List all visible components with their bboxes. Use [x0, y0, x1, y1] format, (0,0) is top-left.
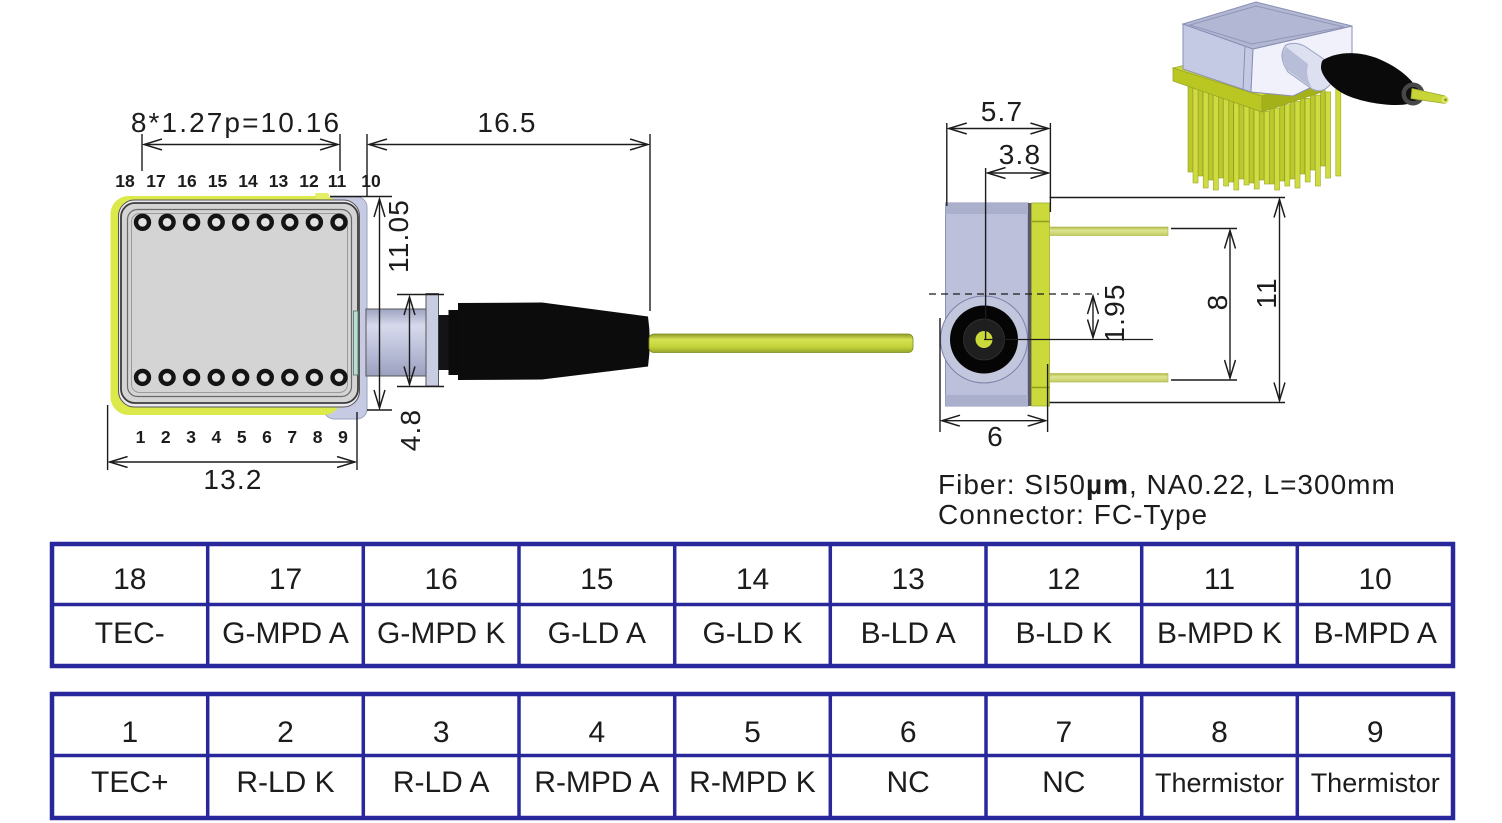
svg-text:5: 5	[744, 716, 761, 749]
svg-text:5: 5	[237, 427, 247, 447]
svg-text:R-LD A: R-LD A	[393, 766, 490, 799]
svg-text:17: 17	[146, 171, 165, 191]
svg-text:2: 2	[277, 716, 294, 749]
dim 5.7/3.8 extension right	[1049, 123, 1051, 212]
fiber boot circle	[950, 306, 1018, 374]
table 2 grid	[52, 694, 1453, 818]
svg-text:10: 10	[1359, 563, 1392, 596]
3d box top face	[1183, 2, 1352, 49]
dim 13.2 line	[110, 461, 355, 463]
table 2 row 1 text	[121, 716, 1383, 749]
svg-text:4: 4	[588, 716, 605, 749]
yellow strip joints	[1032, 221, 1050, 223]
3d base plate front edge	[1173, 68, 1262, 112]
yellow tab top right	[315, 193, 329, 199]
bottom lead pin	[1050, 374, 1169, 383]
svg-text:15: 15	[208, 171, 228, 191]
svg-text:6: 6	[987, 421, 1004, 452]
svg-text:G-MPD A: G-MPD A	[222, 617, 349, 650]
3d back row pins	[1188, 81, 1325, 184]
svg-text:17: 17	[269, 563, 302, 596]
plate edge glass sliver	[354, 311, 359, 375]
dim 4.8 extension bottom	[397, 386, 444, 388]
yellow flange strip	[1032, 203, 1050, 406]
dim 13.2 extension left	[107, 405, 109, 470]
svg-text:NC: NC	[887, 766, 930, 799]
fiber boot inner ring	[964, 319, 1005, 360]
dim 6 extension left	[939, 318, 941, 432]
svg-text:1: 1	[136, 427, 146, 447]
3d front row pins	[1193, 88, 1341, 190]
svg-text:11: 11	[1204, 563, 1235, 596]
svg-text:B-LD A: B-LD A	[861, 617, 956, 650]
svg-text:7: 7	[287, 427, 297, 447]
svg-text:G-LD A: G-LD A	[548, 617, 646, 650]
svg-text:6: 6	[262, 427, 272, 447]
svg-text:8*1.27p=10.16: 8*1.27p=10.16	[131, 107, 341, 138]
svg-text:5.7: 5.7	[981, 96, 1024, 127]
table 1 grid	[52, 544, 1453, 666]
bottom pin labels 1..9	[136, 427, 349, 447]
dim 16.5 extension left	[366, 134, 368, 197]
dim 8 extension bottom	[1171, 379, 1237, 381]
svg-text:8: 8	[313, 427, 323, 447]
center dashed line	[929, 293, 1099, 295]
svg-text:8: 8	[1202, 294, 1233, 311]
svg-text:13: 13	[269, 171, 289, 191]
pin holes top row	[136, 216, 346, 229]
svg-text:Thermistor: Thermistor	[1155, 768, 1284, 798]
table 2 row 2 text	[91, 766, 1440, 799]
ferrule cylinder	[366, 309, 426, 376]
table 1 row 2 text	[95, 617, 1437, 650]
svg-text:G-LD K: G-LD K	[702, 617, 802, 650]
fiber exit collar	[941, 296, 1028, 383]
3d fiber stub	[1411, 89, 1447, 104]
dim 1.95 line	[1092, 296, 1094, 338]
svg-text:3: 3	[186, 427, 196, 447]
svg-text:16.5: 16.5	[477, 107, 536, 138]
dim 3.8 line	[988, 172, 1049, 174]
dim 11 extension bottom	[1050, 402, 1286, 404]
svg-text:B-LD K: B-LD K	[1015, 617, 1112, 650]
svg-text:18: 18	[115, 171, 135, 191]
svg-text:G-MPD K: G-MPD K	[377, 617, 505, 650]
svg-text:9: 9	[1367, 716, 1384, 749]
strain relief boot	[458, 303, 650, 381]
side body	[946, 203, 1029, 406]
dim 4.8 line	[409, 297, 411, 385]
svg-text:3: 3	[433, 716, 450, 749]
dim 11 line	[1279, 200, 1281, 401]
dim 3.8 extension center	[985, 168, 987, 340]
svg-text:14: 14	[238, 171, 258, 191]
svg-text:R-MPD K: R-MPD K	[689, 766, 816, 799]
dim 5.7 extension left	[946, 123, 948, 206]
svg-text:6: 6	[900, 716, 917, 749]
package gray baseplate	[121, 203, 358, 403]
side body bottom band	[946, 395, 1029, 406]
svg-text:12: 12	[299, 171, 319, 191]
svg-text:R-LD K: R-LD K	[236, 766, 334, 799]
table 1 row 1 text	[113, 563, 1392, 596]
svg-text:9: 9	[338, 427, 348, 447]
svg-text:11: 11	[1251, 277, 1282, 308]
dim pitch extension right	[339, 134, 341, 171]
dim 8 line	[1229, 231, 1231, 379]
3d snout cylinder	[1282, 43, 1333, 90]
svg-text:2: 2	[161, 427, 171, 447]
svg-text:18: 18	[113, 563, 146, 596]
svg-text:13: 13	[892, 563, 925, 596]
3d black boot	[1321, 53, 1417, 105]
dim 11.05 line	[379, 199, 381, 408]
ferrule flange	[426, 294, 439, 387]
3d base plate right edge	[1262, 76, 1322, 112]
dim 5.7 line	[949, 128, 1049, 130]
side body edge line	[1028, 203, 1032, 406]
svg-text:TEC+: TEC+	[91, 766, 169, 799]
baseplate inner outline	[128, 210, 352, 397]
dim 11 extension top	[1050, 197, 1286, 199]
svg-text:11: 11	[328, 171, 347, 191]
top pin labels 18..10	[115, 171, 381, 191]
3d boot end ring	[1402, 83, 1425, 106]
dim 16.5 line	[369, 144, 648, 146]
svg-text:4: 4	[212, 427, 222, 447]
svg-text:B-MPD A: B-MPD A	[1314, 617, 1437, 650]
3d box right face	[1251, 26, 1352, 96]
svg-text:7: 7	[1055, 716, 1072, 749]
package light ring	[119, 200, 360, 407]
package yellow rim	[111, 196, 342, 415]
dim 8 extension top	[1171, 228, 1237, 230]
3d yellow base plate top	[1173, 52, 1322, 96]
svg-text:1: 1	[121, 716, 138, 749]
fiber center line	[984, 339, 1153, 341]
baseplate inner outline 2	[132, 214, 348, 393]
dim 13.2 extension right	[356, 412, 358, 470]
svg-text:Thermistor: Thermistor	[1311, 768, 1440, 798]
pin holes bottom row	[136, 371, 346, 384]
3d box left face	[1183, 24, 1253, 92]
3d snout shade	[1283, 47, 1313, 88]
dim 11.05 extension top	[330, 196, 392, 198]
svg-text:13.2: 13.2	[203, 464, 262, 495]
dim 6 extension right	[1047, 364, 1049, 432]
dim pitch extension left	[141, 134, 143, 171]
svg-text:R-MPD A: R-MPD A	[534, 766, 659, 799]
svg-text:3.8: 3.8	[999, 139, 1042, 170]
boot black ring 2	[449, 310, 459, 375]
svg-text:11.05: 11.05	[383, 199, 414, 273]
fiber core dot	[976, 331, 993, 348]
package lavender shell	[324, 197, 367, 419]
boot black ring 1	[439, 315, 449, 370]
fiber cable	[649, 334, 913, 353]
svg-text:8: 8	[1211, 716, 1228, 749]
3d box top face seam	[1190, 6, 1344, 44]
svg-text:Connector: FC-Type: Connector: FC-Type	[938, 499, 1208, 530]
dim 16.5 extension right	[649, 134, 651, 311]
svg-text:Fiber: SI50µm, NA0.22, L=300mm: Fiber: SI50µm, NA0.22, L=300mm	[938, 469, 1396, 500]
svg-text:TEC-: TEC-	[95, 617, 165, 650]
svg-text:B-MPD K: B-MPD K	[1157, 617, 1282, 650]
side body top band	[946, 203, 1029, 214]
svg-text:15: 15	[580, 563, 613, 596]
dim 8*1.27p=10.16 line	[144, 144, 338, 146]
top lead pin	[1050, 227, 1169, 236]
dim 11.05 extension bottom	[367, 409, 392, 411]
svg-text:1.95: 1.95	[1099, 283, 1130, 342]
svg-text:12: 12	[1047, 563, 1080, 596]
svg-text:4.8: 4.8	[395, 409, 426, 452]
svg-text:16: 16	[177, 171, 197, 191]
svg-text:10: 10	[361, 171, 381, 191]
3d box left face seam	[1243, 46, 1245, 90]
svg-text:NC: NC	[1042, 766, 1085, 799]
svg-text:14: 14	[736, 563, 769, 596]
svg-text:16: 16	[425, 563, 458, 596]
dim 6 line	[942, 420, 1046, 422]
dim 4.8 extension top	[397, 294, 444, 296]
